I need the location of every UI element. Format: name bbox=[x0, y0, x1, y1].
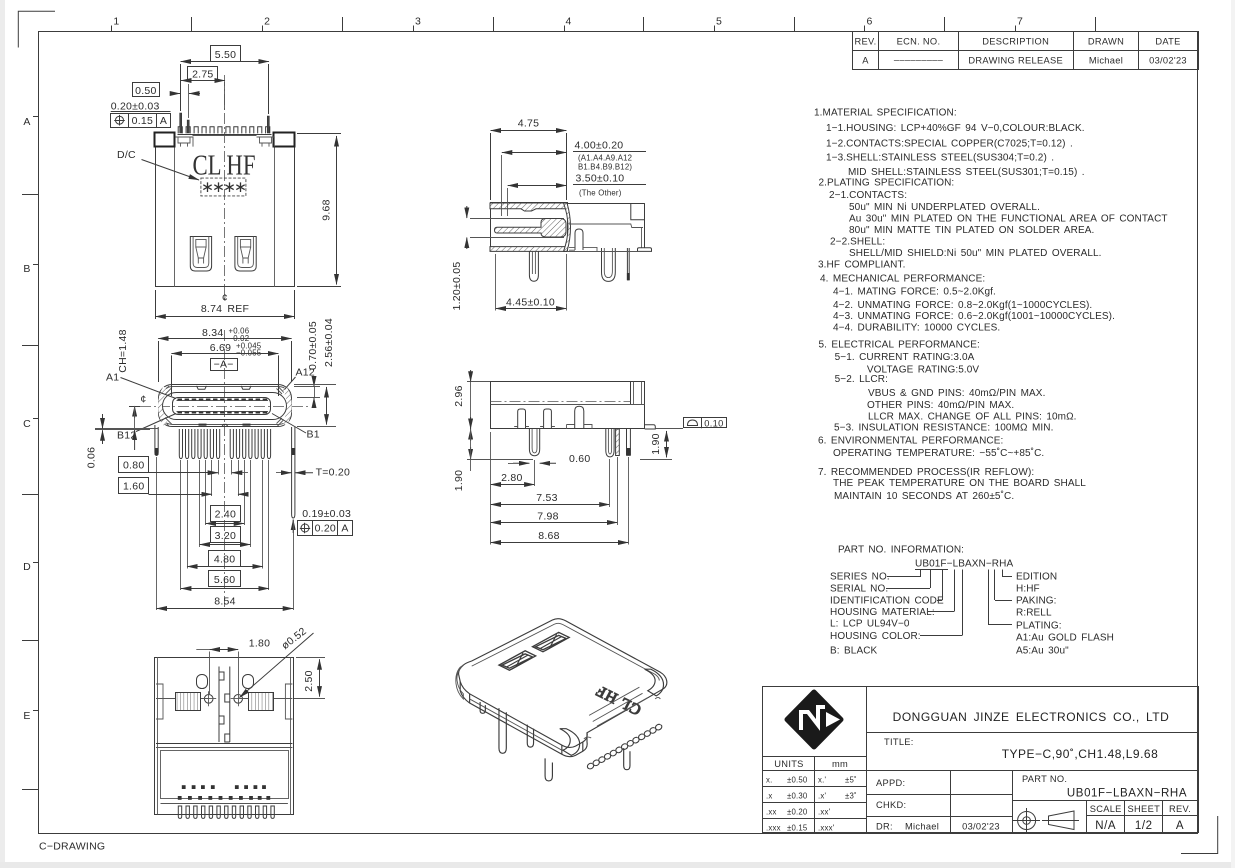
svg-text:0.60: 0.60 bbox=[569, 453, 590, 465]
inner horizontal lines bbox=[491, 401, 631, 403]
bottom band hatched bbox=[490, 247, 567, 252]
svg-text:A12: A12 bbox=[296, 367, 315, 379]
svg-text:PAKING:: PAKING: bbox=[1016, 596, 1057, 607]
revision table bbox=[853, 32, 1199, 70]
body outline bbox=[491, 382, 645, 429]
svg-text:0.80: 0.80 bbox=[123, 460, 144, 472]
svg-text:CL HF: CL HF bbox=[193, 149, 256, 181]
svg-text:4.45±0.10: 4.45±0.10 bbox=[506, 297, 555, 309]
svg-text:5: 5 bbox=[716, 16, 722, 28]
leg U 1 bbox=[529, 429, 539, 456]
oval dims bbox=[86, 318, 353, 536]
pin pitch dimension ladder bbox=[119, 457, 294, 611]
tongue bbox=[173, 398, 271, 415]
svg-text:1−1.HOUSING: LCP+40%GF 94 V−0,: 1−1.HOUSING: LCP+40%GF 94 V−0,COLOUR:BLA… bbox=[826, 123, 1085, 134]
svg-text:8.54: 8.54 bbox=[214, 596, 235, 608]
oval holes bbox=[197, 675, 208, 689]
dim 0.06 bbox=[95, 428, 158, 430]
svg-text:T=0.20: T=0.20 bbox=[316, 466, 350, 478]
third angle projection symbol bbox=[1013, 808, 1079, 833]
oval view centerlines bbox=[224, 330, 226, 610]
svg-text:9.68: 9.68 bbox=[321, 199, 333, 220]
position tolerance frame 0.15 A bbox=[111, 114, 171, 128]
thin pin bbox=[627, 248, 629, 280]
svg-text:.xxx': .xxx' bbox=[818, 824, 835, 833]
svg-text:4: 4 bbox=[565, 16, 571, 28]
front band lines bbox=[460, 682, 587, 757]
svg-text:TYPE−C,90˚,CH1.48,L9.68: TYPE−C,90˚,CH1.48,L9.68 bbox=[1002, 747, 1159, 761]
mounting holes bbox=[204, 695, 213, 704]
BOTTOM VIEW bbox=[155, 657, 294, 818]
svg-text:2.56±0.04: 2.56±0.04 bbox=[323, 318, 335, 367]
svg-text:.xx': .xx' bbox=[818, 808, 831, 817]
svg-text:A: A bbox=[1176, 820, 1184, 832]
top band hatched bbox=[490, 203, 567, 211]
company name bbox=[866, 732, 1198, 734]
svg-text:B12: B12 bbox=[117, 430, 136, 442]
top face details bbox=[156, 743, 292, 745]
svg-text:E: E bbox=[23, 710, 30, 722]
small hook left bbox=[480, 702, 485, 713]
svg-text:1.60: 1.60 bbox=[123, 481, 144, 493]
shell outline bbox=[491, 203, 568, 251]
svg-text:6.69: 6.69 bbox=[210, 342, 231, 354]
A1 leader bbox=[121, 378, 177, 399]
lower inner region bbox=[161, 751, 289, 799]
scale sheet rev cells bbox=[1086, 801, 1088, 833]
svg-text:±3˚: ±3˚ bbox=[845, 792, 857, 801]
svg-text:1−2.CONTACTS:SPECIAL COPPER(C7: 1−2.CONTACTS:SPECIAL COPPER(C7025;T=0.12… bbox=[826, 138, 1073, 149]
dim 0.80 bbox=[119, 457, 149, 473]
svg-text:MAINTAIN 10 SECONDS AT 260±5˚C: MAINTAIN 10 SECONDS AT 260±5˚C. bbox=[834, 490, 1014, 502]
svg-text:.xx: .xx bbox=[766, 808, 777, 817]
svg-text:2.50: 2.50 bbox=[303, 670, 315, 691]
svg-text:2.80: 2.80 bbox=[501, 472, 522, 484]
leg U 2 bbox=[606, 429, 614, 457]
part no cell bbox=[1013, 800, 1198, 802]
svg-text:DR:: DR: bbox=[876, 822, 893, 832]
svg-text:1.20±0.05: 1.20±0.05 bbox=[451, 262, 463, 311]
svg-text:PART NO. INFORMATION:: PART NO. INFORMATION: bbox=[838, 545, 964, 556]
svg-text:UB01F−LBAXN−RHA: UB01F−LBAXN−RHA bbox=[1067, 788, 1187, 800]
svg-text:2−2.SHELL:: 2−2.SHELL: bbox=[830, 236, 885, 247]
part no. connector lines bbox=[886, 570, 1012, 636]
right bumper bbox=[645, 669, 664, 696]
svg-text:1.90: 1.90 bbox=[453, 470, 465, 491]
svg-text:DRAWING RELEASE: DRAWING RELEASE bbox=[968, 55, 1063, 65]
svg-text:1−3.SHELL:STAINLESS STEEL(SUS3: 1−3.SHELL:STAINLESS STEEL(SUS304;T=0.2) … bbox=[826, 153, 1054, 164]
svg-text:PLATING:: PLATING: bbox=[1016, 621, 1062, 632]
top face outline bbox=[459, 619, 667, 748]
svg-text:Michael: Michael bbox=[1089, 55, 1123, 65]
dim 3.20 bbox=[211, 527, 241, 543]
line through hole centers bbox=[156, 698, 208, 700]
seam line on front bbox=[470, 699, 562, 750]
svg-text:±0.30: ±0.30 bbox=[787, 792, 808, 801]
svg-text:.x': .x' bbox=[818, 792, 826, 801]
svg-text:±5˚: ±5˚ bbox=[845, 776, 857, 785]
svg-text:LLCR MAX. CHANGE OF ALL PINS:: LLCR MAX. CHANGE OF ALL PINS: 10mΩ. bbox=[868, 412, 1077, 423]
contact stub with rounded top bbox=[575, 229, 583, 250]
svg-text:7.53: 7.53 bbox=[536, 492, 557, 504]
svg-text:80u" MIN MATTE TIN PLATED ON S: 80u" MIN MATTE TIN PLATED ON SOLDER AREA… bbox=[849, 225, 1094, 236]
top corner blocks bbox=[155, 133, 175, 147]
svg-text:4.80: 4.80 bbox=[214, 554, 235, 566]
svg-text:6: 6 bbox=[866, 16, 872, 28]
svg-text:ECN. NO.: ECN. NO. bbox=[897, 36, 941, 46]
svg-text:03/02'23: 03/02'23 bbox=[1149, 55, 1187, 65]
svg-text:x.: x. bbox=[766, 776, 772, 785]
contact pins sticking above bbox=[180, 113, 182, 133]
window latch 2 bbox=[533, 632, 570, 651]
bottom view outline bbox=[155, 658, 294, 815]
svg-text:x.': x.' bbox=[818, 776, 826, 785]
svg-text:0.20: 0.20 bbox=[315, 523, 336, 535]
dim 2.40 bbox=[211, 506, 241, 522]
svg-text:7: 7 bbox=[1017, 16, 1023, 28]
left/right end hatch crescents bbox=[161, 388, 166, 424]
dim 5.50 bbox=[211, 46, 241, 62]
front view centerline bbox=[224, 75, 226, 302]
svg-text:5−1. CURRENT RATING:3.0A: 5−1. CURRENT RATING:3.0A bbox=[835, 352, 975, 363]
svg-text:2.96: 2.96 bbox=[453, 385, 465, 406]
svg-text:B: BLACK: B: BLACK bbox=[830, 646, 878, 657]
bottom dark tabs bbox=[199, 424, 207, 426]
svg-text:D/C: D/C bbox=[117, 149, 136, 161]
cavity bbox=[163, 393, 287, 420]
svg-text:Au 30u" MIN PLATED ON THE FUNC: Au 30u" MIN PLATED ON THE FUNCTIONAL ARE… bbox=[849, 213, 1168, 224]
svg-text:0.06: 0.06 bbox=[86, 447, 98, 468]
left/right wall notches bbox=[156, 684, 163, 719]
dim 8.74 REF bbox=[155, 290, 157, 319]
svg-text:1/2: 1/2 bbox=[1135, 820, 1153, 832]
svg-text:C: C bbox=[23, 418, 31, 430]
pin comb diagonal bbox=[587, 724, 661, 769]
svg-text:0.19±0.03: 0.19±0.03 bbox=[302, 508, 351, 520]
svg-text:R:RELL: R:RELL bbox=[1016, 608, 1052, 619]
svg-text:SERIAL NO.: SERIAL NO. bbox=[830, 584, 888, 595]
svg-text:DATE: DATE bbox=[1155, 36, 1180, 46]
svg-text:8.34: 8.34 bbox=[202, 327, 223, 339]
svg-text:4. MECHANICAL PERFORMANCE:: 4. MECHANICAL PERFORMANCE: bbox=[820, 274, 985, 285]
right back assembly bbox=[567, 203, 645, 205]
datum -A- bbox=[211, 359, 238, 371]
pad row 2 bbox=[178, 796, 182, 800]
flatness frame bbox=[684, 418, 727, 428]
svg-text:5.50: 5.50 bbox=[215, 49, 236, 61]
front-left bumper bbox=[560, 729, 580, 756]
svg-text:A: A bbox=[862, 55, 869, 65]
right shell leg long (T pin) bbox=[292, 427, 295, 518]
svg-text:3.50±0.10: 3.50±0.10 bbox=[576, 172, 625, 184]
svg-text:−A−: −A− bbox=[214, 358, 234, 370]
top right block bbox=[631, 382, 645, 405]
svg-text:±0.50: ±0.50 bbox=[787, 776, 808, 785]
svg-text:DRAWN: DRAWN bbox=[1088, 36, 1124, 46]
svg-text:A: A bbox=[341, 523, 348, 535]
title row bbox=[866, 770, 1198, 772]
svg-text:4.00±0.20: 4.00±0.20 bbox=[575, 139, 624, 151]
svg-text:UNITS: UNITS bbox=[774, 759, 803, 769]
SIDE VIEW bbox=[491, 382, 656, 457]
svg-text:2: 2 bbox=[264, 16, 270, 28]
svg-text:HOUSING COLOR:: HOUSING COLOR: bbox=[830, 631, 921, 642]
svg-text:A1:Au GOLD FLASH: A1:Au GOLD FLASH bbox=[1016, 633, 1114, 644]
bottom view dims bbox=[196, 625, 325, 698]
logo cell bbox=[762, 756, 866, 758]
svg-text:IDENTIFICATION CODE: IDENTIFICATION CODE bbox=[830, 596, 944, 607]
dim 1.60 bbox=[119, 478, 149, 494]
svg-text:SHELL/MID SHIELD:Ni 50u" MIN P: SHELL/MID SHIELD:Ni 50u" MIN PLATED OVER… bbox=[849, 248, 1102, 259]
side view dims bbox=[453, 370, 727, 545]
solder legs bbox=[190, 237, 211, 272]
svg-text:SCALE: SCALE bbox=[1090, 804, 1122, 814]
svg-text:5−3. INSULATION RESISTANCE: 10: 5−3. INSULATION RESISTANCE: 100MΩ MIN. bbox=[834, 422, 1053, 433]
dim 2.75 bbox=[188, 67, 218, 81]
svg-text:APPD:: APPD: bbox=[876, 778, 905, 788]
svg-text:7.98: 7.98 bbox=[537, 510, 558, 522]
big U leg bbox=[602, 248, 616, 281]
svg-text:A: A bbox=[23, 116, 30, 128]
legs bbox=[499, 708, 506, 753]
right foot bbox=[645, 425, 656, 429]
ISOMETRIC VIEW bbox=[456, 619, 667, 781]
hatched pin bbox=[616, 429, 620, 456]
svg-text:2.40: 2.40 bbox=[215, 509, 236, 521]
svg-text:A: A bbox=[160, 115, 167, 127]
svg-text:0.10: 0.10 bbox=[704, 418, 723, 428]
window latch 1 bbox=[499, 651, 536, 670]
svg-text:B1: B1 bbox=[307, 429, 320, 441]
svg-text:CHKD:: CHKD: bbox=[876, 800, 906, 810]
svg-text:mm: mm bbox=[832, 759, 848, 769]
svg-text:EDITION: EDITION bbox=[1016, 572, 1057, 583]
svg-text:–––––––––: ––––––––– bbox=[894, 55, 944, 65]
front view dimensions bbox=[111, 46, 342, 320]
tongue (hatched) bbox=[495, 219, 567, 238]
svg-text:4.75: 4.75 bbox=[518, 118, 539, 130]
svg-text:0.70±0.05: 0.70±0.05 bbox=[307, 321, 319, 370]
top notches bbox=[197, 386, 207, 389]
svg-text:L: LCP UL94V−0: L: LCP UL94V−0 bbox=[830, 619, 910, 630]
svg-text:REV.: REV. bbox=[1169, 804, 1191, 814]
svg-text:.xxx: .xxx bbox=[766, 824, 781, 833]
svg-text:3.20: 3.20 bbox=[215, 530, 236, 542]
svg-text:B1.B4.B9.B12): B1.B4.B9.B12) bbox=[578, 163, 632, 172]
svg-text:DESCRIPTION: DESCRIPTION bbox=[982, 36, 1049, 46]
shell legs sides bbox=[155, 425, 158, 456]
dim 9.68 bbox=[297, 133, 341, 135]
svg-text:3.HF COMPLIANT.: 3.HF COMPLIANT. bbox=[818, 259, 905, 270]
svg-text:1.90: 1.90 bbox=[650, 433, 662, 454]
svg-text:2−1.CONTACTS:: 2−1.CONTACTS: bbox=[829, 190, 907, 201]
svg-text:Michael: Michael bbox=[905, 822, 939, 832]
svg-text:5.60: 5.60 bbox=[214, 574, 235, 586]
svg-text:5−2. LLCR:: 5−2. LLCR: bbox=[835, 374, 888, 385]
svg-text:OTHER PINS: 40mΩ/PIN MAX.: OTHER PINS: 40mΩ/PIN MAX. bbox=[867, 400, 1014, 411]
pad row 1 bbox=[182, 785, 186, 789]
centre solder pin bbox=[529, 251, 538, 281]
svg-text:50u" MIN Ni UNDERPLATED OVERAL: 50u" MIN Ni UNDERPLATED OVERALL. bbox=[849, 202, 1040, 213]
svg-text:1.MATERIAL SPECIFICATION:: 1.MATERIAL SPECIFICATION: bbox=[814, 108, 957, 119]
svg-text:PART NO.: PART NO. bbox=[1022, 774, 1067, 784]
contact pin comb below tongue bbox=[179, 429, 270, 459]
svg-text:SHEET: SHEET bbox=[1128, 804, 1161, 814]
dim 4.80 bbox=[209, 551, 241, 567]
svg-text:(The Other): (The Other) bbox=[579, 188, 622, 197]
svg-text:0.15: 0.15 bbox=[132, 115, 153, 127]
svg-text:VBUS & GND PINS: 40mΩ/PIN MAX.: VBUS & GND PINS: 40mΩ/PIN MAX. bbox=[868, 388, 1045, 399]
dim 5.60 bbox=[209, 571, 241, 587]
front view body outline bbox=[155, 147, 157, 287]
cavity lines bbox=[492, 218, 564, 220]
svg-text:.x: .x bbox=[766, 792, 772, 801]
svg-text:2.PLATING SPECIFICATION:: 2.PLATING SPECIFICATION: bbox=[819, 178, 955, 189]
svg-text:3: 3 bbox=[415, 16, 421, 28]
svg-text:7. RECOMMENDED PROCESS(IR REFL: 7. RECOMMENDED PROCESS(IR REFLOW): bbox=[818, 467, 1034, 478]
svg-text:4−2. UNMATING FORCE: 0.8~2.0Kg: 4−2. UNMATING FORCE: 0.8~2.0Kgf(1~1000CY… bbox=[833, 300, 1092, 311]
svg-text:¢: ¢ bbox=[140, 393, 146, 405]
svg-text:N/A: N/A bbox=[1095, 820, 1116, 832]
svg-text:4−1. MATING FORCE: 0.5~2.0Kgf.: 4−1. MATING FORCE: 0.5~2.0Kgf. bbox=[833, 286, 996, 297]
svg-text:03/02'23: 03/02'23 bbox=[962, 822, 1000, 832]
title block outline bbox=[763, 687, 1199, 833]
svg-text:SERIES NO.: SERIES NO. bbox=[830, 572, 890, 583]
svg-text:2.75: 2.75 bbox=[192, 68, 213, 80]
top rail and teeth comb bbox=[178, 134, 272, 136]
svg-text:(A1.A4.A9.A12: (A1.A4.A9.A12 bbox=[578, 154, 632, 163]
svg-text:8.74 REF: 8.74 REF bbox=[201, 303, 249, 315]
svg-text:0.50: 0.50 bbox=[135, 85, 156, 97]
top-left corner crop mark bbox=[18, 11, 55, 47]
svg-text:DONGGUAN JINZE ELECTRONICS: DONGGUAN JINZE ELECTRONICS CO., LTD bbox=[893, 710, 1170, 724]
dim 0.50 bbox=[133, 83, 160, 97]
shell edge band between bumpers bbox=[589, 687, 647, 726]
svg-text:MID SHELL:STAINLESS STEEL(SUS3: MID SHELL:STAINLESS STEEL(SUS301;T=0.15)… bbox=[848, 167, 1085, 178]
left rounded edge bbox=[456, 665, 464, 699]
company logo bbox=[787, 692, 841, 747]
shell outer bbox=[159, 385, 292, 427]
right crescent bbox=[564, 203, 571, 251]
thin pin bbox=[627, 429, 631, 456]
tongue contacts dashed bbox=[178, 399, 268, 401]
svg-text:A5:Au 30u": A5:Au 30u" bbox=[1016, 646, 1069, 657]
side section dims bbox=[451, 118, 646, 311]
svg-text:1.80: 1.80 bbox=[249, 638, 270, 650]
appd/chkd/dr rows bbox=[950, 771, 952, 833]
svg-text:5. ELECTRICAL PERFORMANCE:: 5. ELECTRICAL PERFORMANCE: bbox=[819, 340, 980, 351]
svg-text:B: B bbox=[23, 263, 30, 275]
bottom-right corner crop mark bbox=[1181, 816, 1218, 854]
FRONT VIEW bbox=[155, 75, 295, 304]
svg-text:±0.20: ±0.20 bbox=[787, 808, 808, 817]
left latch detail bbox=[175, 137, 193, 147]
corner hatch patches bbox=[163, 386, 284, 426]
svg-text:UB01F−LBAXN−RHA: UB01F−LBAXN−RHA bbox=[915, 559, 1013, 570]
svg-text:HOUSING MATERIAL:: HOUSING MATERIAL: bbox=[830, 607, 935, 618]
svg-text:0.20±0.03: 0.20±0.03 bbox=[111, 100, 160, 112]
top face inner edge bbox=[472, 623, 660, 680]
svg-text:C−DRAWING: C−DRAWING bbox=[39, 841, 105, 853]
svg-text:8.68: 8.68 bbox=[538, 530, 559, 542]
svg-text:TITLE:: TITLE: bbox=[884, 737, 914, 747]
svg-text:4−4. DURABILITY: 10000 CYCLES.: 4−4. DURABILITY: 10000 CYCLES. bbox=[833, 323, 1000, 334]
svg-text:±0.15: ±0.15 bbox=[787, 824, 808, 833]
central latch channel bbox=[219, 667, 230, 743]
right latch detail bbox=[257, 137, 275, 147]
svg-text:D: D bbox=[23, 561, 31, 573]
svg-text:THE PEAK TEMPERATURE ON THE BO: THE PEAK TEMPERATURE ON THE BOARD SHALL bbox=[833, 478, 1086, 489]
side grip combs (hatched) bbox=[176, 693, 201, 711]
svg-text:6. ENVIRONMENTAL PERFORMANCE:: 6. ENVIRONMENTAL PERFORMANCE: bbox=[818, 435, 1003, 446]
SIDE SECTION VIEW bbox=[490, 203, 652, 282]
svg-text:CH=1.48: CH=1.48 bbox=[117, 329, 129, 372]
MATING FACE VIEW bbox=[140, 330, 308, 610]
bottom stubs bbox=[518, 409, 526, 429]
svg-text:H:HF: H:HF bbox=[1016, 584, 1040, 595]
right foot bbox=[638, 248, 652, 252]
svg-text:1: 1 bbox=[113, 16, 119, 28]
units / tolerance table bbox=[762, 770, 866, 772]
svg-text:REV.: REV. bbox=[854, 36, 876, 46]
bottom pin comb bbox=[161, 803, 288, 805]
svg-text:OPERATING TEMPERATURE: −55˚C~+: OPERATING TEMPERATURE: −55˚C~+85˚C. bbox=[833, 447, 1044, 459]
svg-text:4−3. UNMATING FORCE: 0.6~2.0Kg: 4−3. UNMATING FORCE: 0.6~2.0Kgf(1001~100… bbox=[833, 311, 1115, 322]
